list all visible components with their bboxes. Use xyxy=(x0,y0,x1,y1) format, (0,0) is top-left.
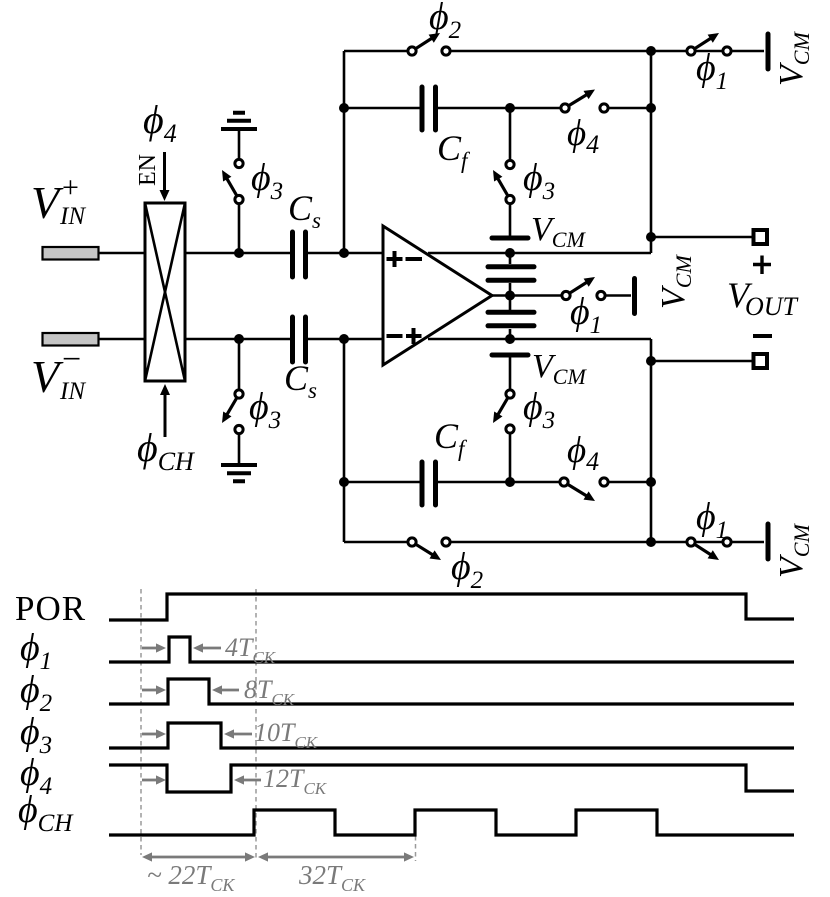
capacitor Cs (bottom) xyxy=(293,317,306,362)
switch phi3 top-left (input to ground) xyxy=(235,159,243,167)
input terminal V_IN+ xyxy=(43,247,99,260)
wire Cf row (top) xyxy=(344,107,651,110)
VCM terminal (mid right) xyxy=(632,279,637,314)
chopper modulator xyxy=(145,203,185,381)
switch phi3 bottom-left (input to ground) xyxy=(235,390,243,398)
wire top rail xyxy=(344,50,764,53)
op-amp - input mark (bottom) xyxy=(387,334,403,338)
junction dots xyxy=(339,103,349,113)
arrow to phi2 rise xyxy=(142,689,158,692)
switch phi1 (mid) xyxy=(562,291,570,299)
waveform POR xyxy=(109,594,794,620)
label + (output) xyxy=(753,256,771,275)
output terminal square - xyxy=(754,354,768,368)
wire right vertical (bottom) xyxy=(650,339,653,542)
op-amp + output mark (bottom) xyxy=(406,328,422,344)
clock input phi_CH arrow xyxy=(164,393,167,437)
dashed marker line 2 xyxy=(255,589,257,861)
wire mid node to phi1 xyxy=(492,294,631,297)
wire left vertical (top) xyxy=(343,51,346,253)
svg-text:POR: POR xyxy=(15,589,86,628)
CM sense capacitor stack xyxy=(509,253,512,339)
dashed marker line 3 xyxy=(415,812,417,861)
wire Cf row (bottom) xyxy=(344,481,651,484)
arrow from phi1 fall xyxy=(201,647,221,650)
VCM terminal (above op-amp stack) xyxy=(492,236,528,241)
capacitor Cf (bottom) xyxy=(422,462,436,505)
op-amp + input mark (top) xyxy=(387,251,403,267)
switch phi3 (bottom, to VCM) xyxy=(509,358,512,391)
svg-text:−: − xyxy=(62,341,81,378)
wire to output terminal - xyxy=(651,360,753,363)
wire bottom rail xyxy=(344,541,764,544)
input terminal V_IN- xyxy=(43,333,99,346)
switch phi3 (top, to VCM) xyxy=(509,108,512,161)
wire op-amp output (top) xyxy=(428,252,651,255)
waveform phi4 xyxy=(109,765,794,792)
switch phi4 (bottom Cf row) xyxy=(560,478,568,486)
switch phi2 (top rail) xyxy=(408,47,416,55)
switch phi1 (top rail) xyxy=(687,47,695,55)
arrow from phi4 rise xyxy=(242,779,261,782)
wire right vertical (top) xyxy=(650,51,653,253)
double arrow 22T_CK xyxy=(150,856,247,859)
svg-text:+: + xyxy=(62,171,79,204)
switch phi1 (bottom rail) xyxy=(687,538,695,546)
VCM terminal (bottom right) xyxy=(766,524,771,559)
clock input EN/phi4 arrow xyxy=(163,152,166,192)
wire bottom input xyxy=(99,338,384,341)
op-amp - output mark (top) xyxy=(406,257,423,261)
waveform phi3 xyxy=(109,723,794,748)
arrow to phi4 fall xyxy=(142,779,158,782)
arrow from phi2 fall xyxy=(220,689,239,692)
wire left vertical (bottom) xyxy=(343,339,346,542)
svg-text:IN: IN xyxy=(59,378,86,405)
capacitor Cs (top) xyxy=(293,232,306,277)
dashed marker line 1 xyxy=(140,589,142,855)
waveform phi_CH xyxy=(109,810,794,835)
ground (top) xyxy=(238,131,241,160)
arrow to phi3 rise xyxy=(142,733,158,736)
capacitor Cf (top) xyxy=(422,87,436,130)
label - (output) xyxy=(753,334,772,338)
VCM terminal (top right) xyxy=(766,34,771,69)
switch phi4 (top Cf row) xyxy=(561,104,569,112)
waveform phi1 xyxy=(109,637,794,662)
svg-text:IN: IN xyxy=(59,203,86,230)
output terminal square + xyxy=(754,230,768,244)
ground (bottom) xyxy=(238,434,241,464)
double arrow 32T_CK xyxy=(266,856,406,859)
VCM terminal (below op-amp stack) xyxy=(492,353,528,358)
wire to output terminal + xyxy=(651,236,753,239)
arrow to phi1 rise xyxy=(142,647,158,650)
wire top input xyxy=(99,252,384,255)
wire op-amp output (bottom) xyxy=(428,338,651,341)
arrow from phi3 fall xyxy=(232,733,252,736)
op-amp xyxy=(383,226,492,365)
svg-text:EN: EN xyxy=(135,154,161,186)
waveform phi2 xyxy=(109,679,794,704)
switch phi2 (bottom rail) xyxy=(408,538,416,546)
